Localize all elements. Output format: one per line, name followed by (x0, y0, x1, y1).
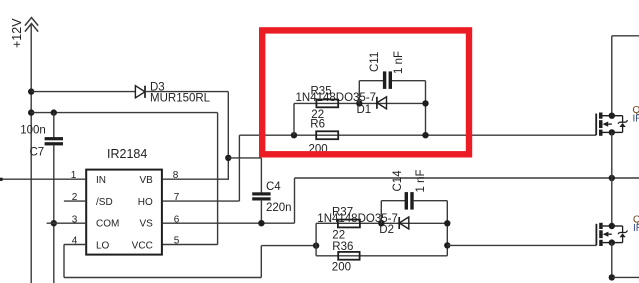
resistor R6 (316, 131, 338, 139)
wire LO link to lower cell (261, 245, 316, 247)
wire VB riser vertical (227, 92, 229, 180)
svg-text:IR2184: IR2184 (107, 147, 147, 161)
svg-text:200: 200 (332, 261, 351, 273)
wire VCC riser right (217, 113, 219, 245)
resistor R35 (316, 100, 338, 108)
junction R37/D2/C14 node (378, 220, 384, 226)
svg-text:7: 7 (174, 192, 180, 203)
wire HO pin7 (163, 200, 240, 202)
wire C4 bottom lead (260, 200, 262, 224)
wire C14 left riser (380, 201, 382, 224)
svg-text:D2: D2 (379, 224, 394, 236)
wire lower cell right vertical (446, 201, 448, 256)
wire C7 top lead (53, 113, 55, 138)
wire lower gate to Q2 (447, 244, 596, 246)
transistor Q1 top MOSFET (596, 113, 627, 136)
wire C14 right lead (414, 200, 448, 202)
wire Q1 source to switch rail (611, 132, 613, 178)
junction VB riser / C4 branch (225, 155, 231, 161)
svg-text:IRF: IRF (633, 223, 639, 234)
wire HO riser (238, 135, 240, 201)
svg-text:220n: 220n (266, 202, 292, 214)
svg-text:1 nF: 1 nF (415, 169, 427, 192)
svg-text:C11: C11 (369, 52, 381, 72)
svg-text:100n: 100n (20, 124, 46, 136)
wire upper cell left vertical (293, 103, 295, 135)
svg-text:C7: C7 (29, 147, 44, 159)
svg-text:IN: IN (96, 175, 106, 186)
wire LO route riser (260, 246, 262, 278)
capacitor C11 (383, 71, 392, 89)
wire C11 right lead (392, 80, 426, 82)
svg-text:1 nF: 1 nF (393, 51, 405, 74)
wire C14 left lead (381, 200, 405, 202)
svg-text:4: 4 (72, 236, 78, 247)
diode D1 (377, 97, 387, 109)
wire D3 anode from +12V (31, 91, 135, 93)
svg-text:VS: VS (139, 219, 153, 230)
capacitor C7 (45, 137, 63, 145)
svg-text:C14: C14 (392, 170, 404, 192)
svg-text:HO: HO (138, 197, 153, 208)
wire LO route down (63, 245, 65, 278)
svg-text:6: 6 (174, 214, 180, 225)
wire VCC rail horizontal (31, 112, 217, 114)
svg-text:5: 5 (174, 236, 180, 247)
diode D3 (135, 86, 145, 98)
wire R36 row (316, 255, 447, 257)
wire VB pin8 (163, 178, 229, 180)
junction R35/D1/C11 node (356, 100, 362, 106)
svg-text:+12V: +12V (10, 18, 24, 48)
svg-text:22: 22 (332, 229, 345, 241)
wire C11 left riser (358, 81, 360, 104)
svg-text:VCC: VCC (132, 240, 153, 251)
svg-text:R36: R36 (332, 241, 353, 253)
wire R36 jog left (315, 246, 317, 256)
junction +12V / VCC rail (28, 109, 34, 115)
svg-text:LO: LO (96, 240, 110, 251)
svg-text:/SD: /SD (96, 197, 113, 208)
junction +12V / D3 row (28, 88, 34, 94)
svg-text:COM: COM (96, 219, 119, 230)
wire VB to C4 top (228, 157, 261, 159)
power +12V (10, 18, 38, 96)
wire Q2 drain from switch rail (611, 178, 613, 226)
wire R35 row (294, 102, 426, 104)
junction C4 / VS row (258, 220, 264, 226)
svg-text:D1: D1 (357, 104, 372, 116)
wire Q2 source down (611, 243, 613, 278)
wire /SD pin2 stub (64, 200, 86, 202)
svg-text:8: 8 (173, 170, 179, 181)
junction LO node lower cell (313, 242, 319, 248)
wire COM pin3 (47, 222, 87, 224)
wire R6 row and top gate (239, 134, 596, 136)
junction COM tap (51, 220, 57, 226)
wire IN pin1 from left edge (0, 178, 86, 181)
svg-text:2: 2 (72, 192, 78, 203)
wire +12V vertical down (30, 92, 32, 283)
svg-text:R6: R6 (310, 118, 325, 130)
wire LO route bottom (64, 277, 261, 279)
svg-text:3: 3 (72, 214, 78, 225)
wire C11 left lead (359, 80, 383, 82)
capacitor C14 (405, 192, 414, 210)
capacitor C4 (252, 192, 270, 200)
wire bottom rail right (612, 276, 639, 278)
junction D1 / right vertical (422, 100, 428, 106)
junction D2 / right vertical (444, 220, 450, 226)
wire VS pin6 (163, 222, 295, 224)
wire top drain from right edge (612, 35, 639, 37)
IC U1 IR2184 box (86, 170, 162, 255)
svg-text:1: 1 (71, 170, 77, 181)
junction switch rail / FETs (609, 175, 615, 181)
svg-text:MUR150RL: MUR150RL (150, 93, 211, 105)
junction source / bottom rail (609, 274, 615, 280)
diode D2 (399, 217, 409, 229)
wire LO pin4 (64, 244, 86, 246)
junction lower gate node (444, 242, 450, 248)
svg-text:IRF: IRF (633, 114, 639, 125)
wire VCC pin5 link (163, 244, 218, 246)
wire VS riser to switch node (294, 178, 296, 223)
transistor Q2 bottom MOSFET (596, 223, 627, 246)
resistor R36 (338, 252, 359, 260)
wire D2 row (315, 223, 317, 245)
svg-text:C4: C4 (266, 181, 281, 193)
svg-text:VB: VB (139, 175, 153, 186)
resistor R37 (338, 220, 360, 228)
svg-text:1N4148DO35-7: 1N4148DO35-7 (296, 92, 377, 104)
wire upper cell right vertical (425, 81, 427, 136)
junction C7 tap (51, 109, 57, 115)
highlight red box annotation (262, 30, 469, 154)
junction upper-left node (291, 132, 297, 138)
wire D3 cathode to VB riser (145, 91, 228, 93)
wire switch node rail (295, 177, 639, 179)
wire C7 bottom lead down (53, 145, 55, 283)
junction gate / right vertical (422, 132, 428, 138)
